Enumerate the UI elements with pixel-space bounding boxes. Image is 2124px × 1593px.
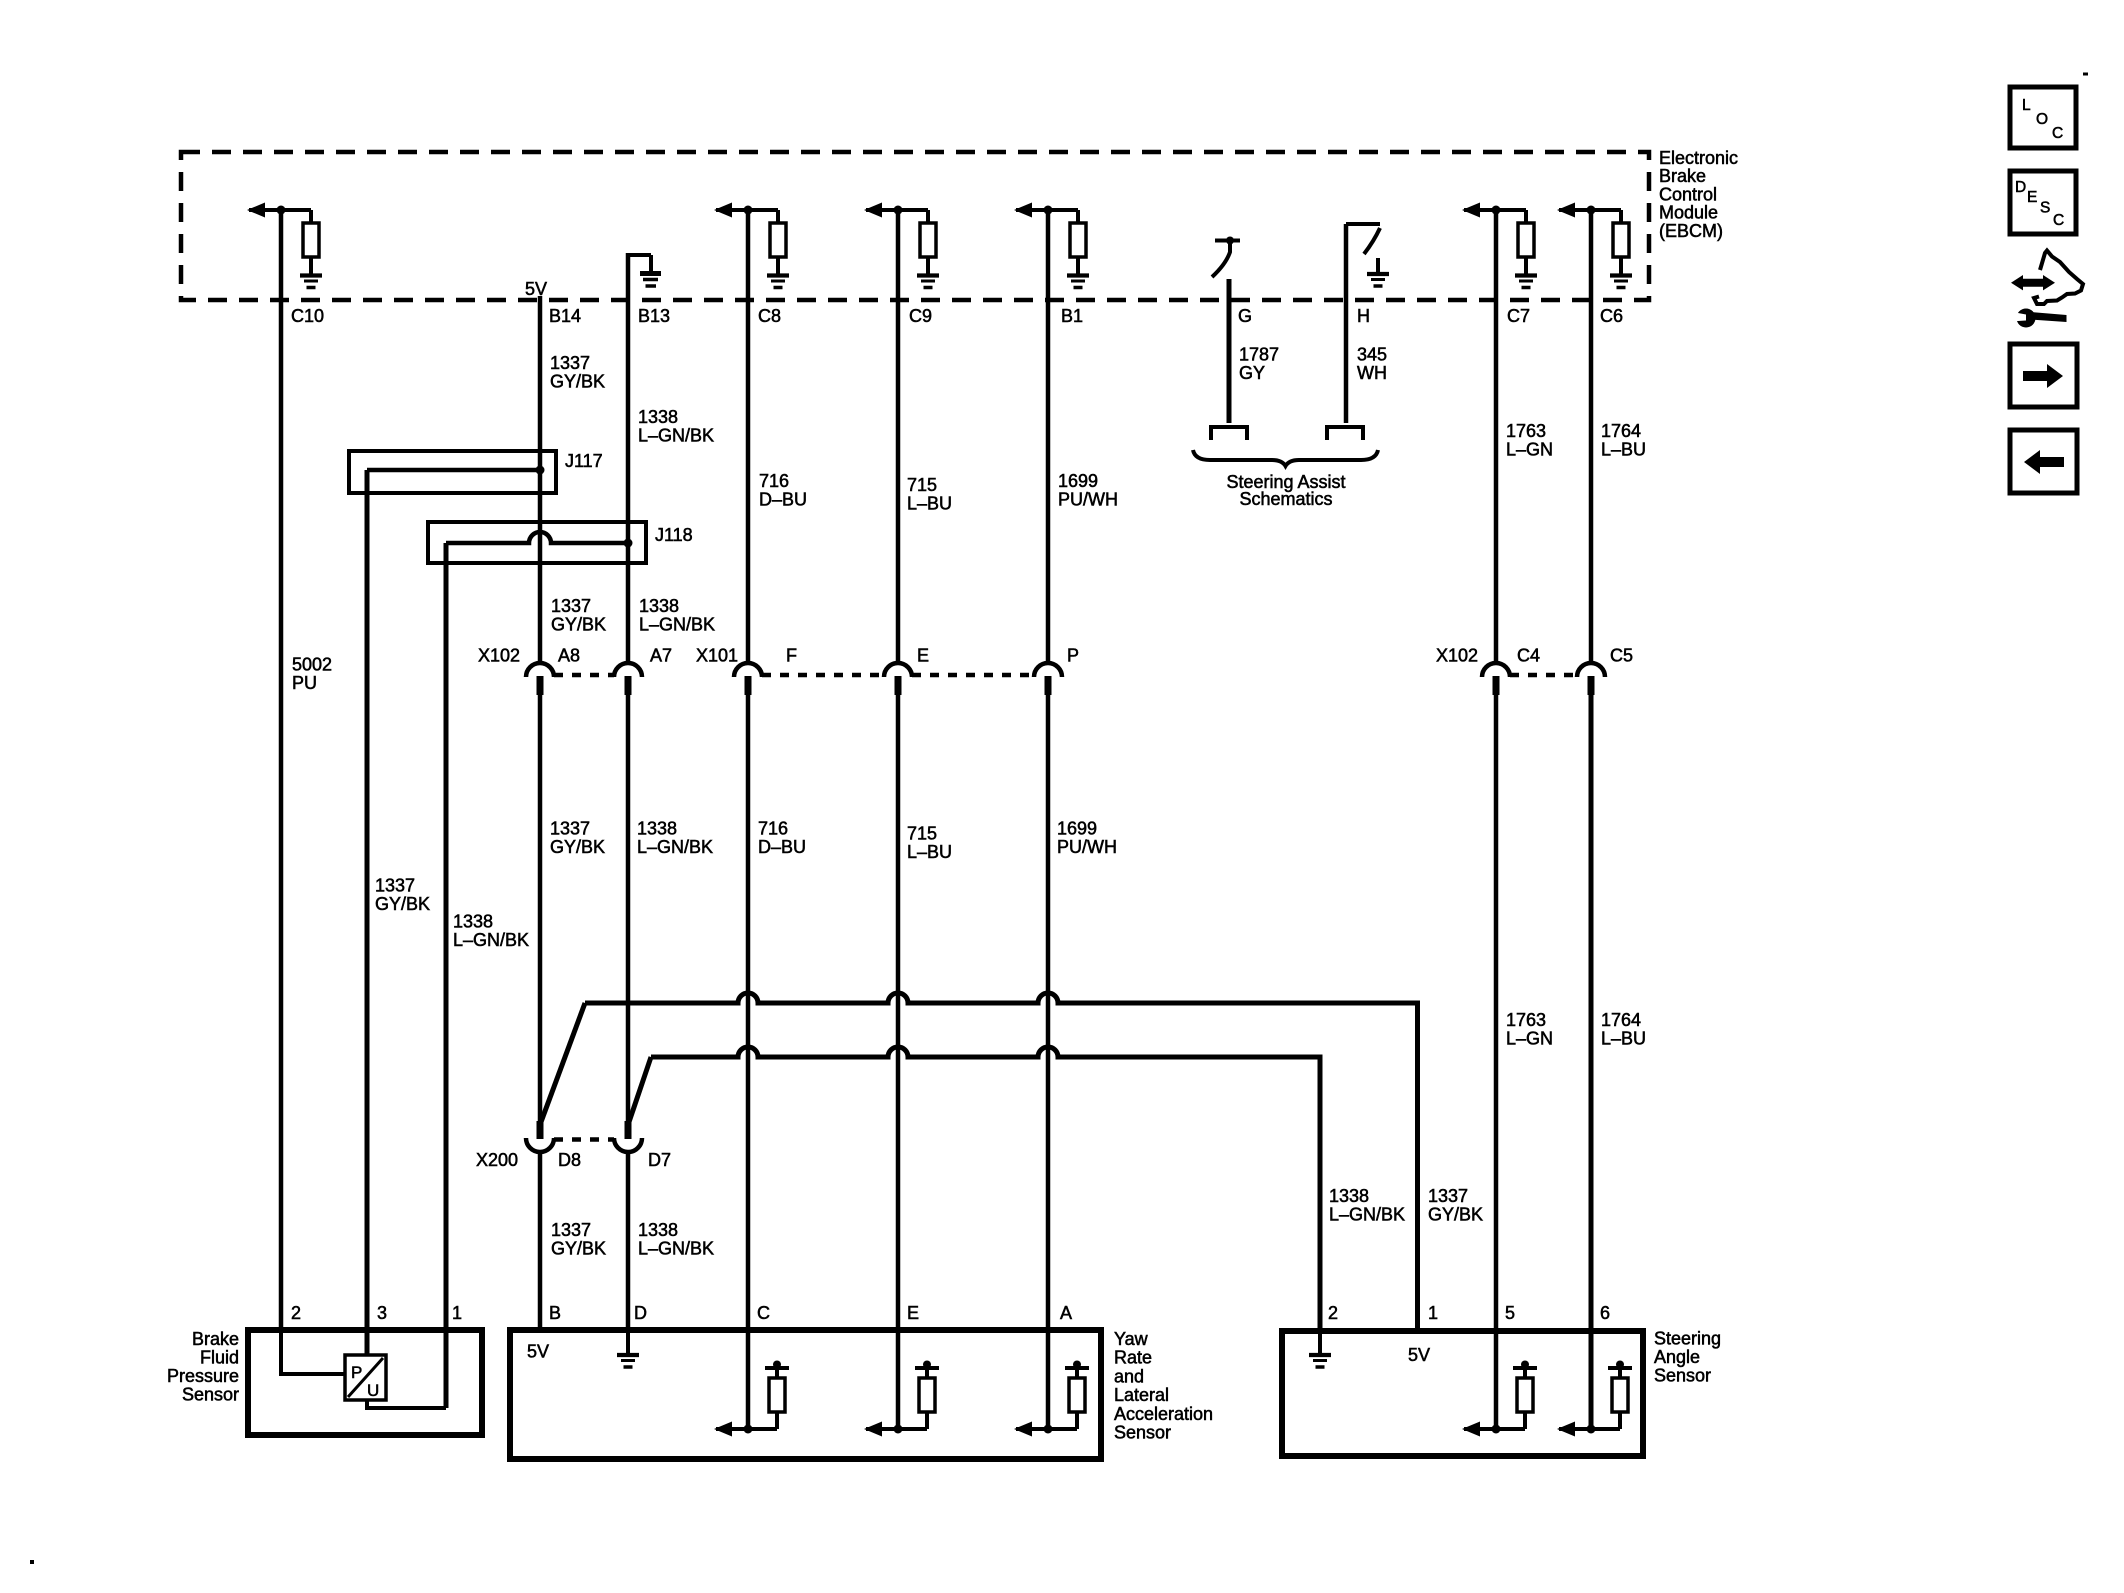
svg-text:L–GN/BK: L–GN/BK xyxy=(1329,1205,1405,1225)
svg-text:E: E xyxy=(917,646,929,666)
svg-text:5002: 5002 xyxy=(292,655,332,675)
G pin switch blade xyxy=(1212,244,1230,277)
connector X200 pin D7 xyxy=(614,1121,642,1152)
connector X102 pin C5 xyxy=(1577,663,1605,695)
svg-text:J117: J117 xyxy=(565,451,603,471)
svg-text:L–BU: L–BU xyxy=(907,842,952,862)
connector X102 pin A7 xyxy=(614,663,642,695)
svg-text:D–BU: D–BU xyxy=(758,837,806,857)
ground symbol at H switch xyxy=(1367,272,1389,276)
steering sensor resistor assembly pin 5 xyxy=(1462,1361,1537,1437)
wire B13 1338 L-GN/BK lower xyxy=(626,1152,631,1330)
wrench of icon xyxy=(2010,309,2066,328)
svg-text:1338: 1338 xyxy=(453,912,493,932)
svg-text:PU/WH: PU/WH xyxy=(1057,837,1117,857)
wire B1 1699 PU/WH upper xyxy=(1046,210,1051,663)
back arrow glyph xyxy=(2024,450,2064,474)
DESC icon box xyxy=(2010,171,2076,234)
dashed link D8-D7 xyxy=(554,1137,614,1142)
splice J118 box xyxy=(428,522,646,563)
wire pin1 link inside sensor xyxy=(367,1400,446,1408)
svg-text:C8: C8 xyxy=(758,306,781,326)
svg-text:5V: 5V xyxy=(527,1342,549,1362)
dashed link E-P xyxy=(912,673,1034,678)
pressure transducer diagonal xyxy=(348,1358,383,1397)
svg-text:3: 3 xyxy=(377,1303,387,1323)
Steering Angle Sensor label xyxy=(1654,1329,1721,1386)
svg-text:B14: B14 xyxy=(549,306,581,326)
svg-text:Sensor: Sensor xyxy=(1114,1423,1171,1443)
connector X101 pin E xyxy=(884,663,912,695)
svg-text:GY/BK: GY/BK xyxy=(375,894,430,914)
page speck bottom left xyxy=(30,1560,34,1564)
svg-text:L–GN/BK: L–GN/BK xyxy=(638,1239,714,1259)
wire C9 715 L-BU lower xyxy=(896,695,901,1429)
svg-text:1787: 1787 xyxy=(1239,345,1279,365)
Steering Angle Sensor box xyxy=(1282,1331,1643,1456)
svg-text:1763: 1763 xyxy=(1506,421,1546,441)
svg-text:1337: 1337 xyxy=(375,876,415,896)
svg-text:WH: WH xyxy=(1357,363,1387,383)
svg-text:1699: 1699 xyxy=(1058,471,1098,491)
svg-text:X102: X102 xyxy=(478,646,520,666)
svg-text:Module: Module xyxy=(1659,203,1718,223)
dashed link A8-A7 xyxy=(554,673,614,678)
svg-text:5V: 5V xyxy=(1408,1345,1430,1365)
svg-text:1699: 1699 xyxy=(1057,819,1097,839)
wire B13 1338 L-GN/BK upper xyxy=(626,253,631,663)
back arrow icon box xyxy=(2010,430,2077,493)
svg-text:Acceleration: Acceleration xyxy=(1114,1404,1213,1424)
svg-text:Rate: Rate xyxy=(1114,1348,1152,1368)
svg-text:GY/BK: GY/BK xyxy=(1428,1205,1483,1225)
svg-text:C: C xyxy=(757,1303,770,1323)
svg-text:S: S xyxy=(2040,200,2050,217)
svg-text:5V: 5V xyxy=(525,279,547,299)
svg-text:1337: 1337 xyxy=(551,596,591,616)
svg-text:1337: 1337 xyxy=(550,353,590,373)
dashed link F-E xyxy=(762,673,884,678)
pressure transducer P/U box xyxy=(345,1355,386,1400)
EBCM internal resistor & ground at pin C7 xyxy=(1462,203,1537,288)
svg-text:P: P xyxy=(1067,646,1079,666)
EBCM internal resistor & ground at pin C6 xyxy=(1557,203,1632,288)
forward arrow icon box xyxy=(2010,344,2077,407)
svg-text:C7: C7 xyxy=(1507,306,1530,326)
svg-text:5: 5 xyxy=(1505,1303,1515,1323)
splice J117 box xyxy=(349,451,556,493)
svg-text:C6: C6 xyxy=(1600,306,1623,326)
splice J118 junction dot xyxy=(624,539,633,548)
svg-text:C: C xyxy=(2052,125,2063,142)
pin labels C10..C6 xyxy=(291,306,1623,326)
EBCM internal resistor & ground at pin C8 xyxy=(714,203,789,288)
svg-text:2: 2 xyxy=(291,1303,301,1323)
svg-text:L–BU: L–BU xyxy=(1601,1029,1646,1049)
svg-text:L–GN: L–GN xyxy=(1506,440,1553,460)
ground stub at yaw pin D xyxy=(626,1330,630,1353)
svg-text:D8: D8 xyxy=(558,1150,581,1170)
svg-text:1338: 1338 xyxy=(1329,1186,1369,1206)
svg-text:G: G xyxy=(1238,306,1252,326)
G pin terminal dot and bar xyxy=(1215,239,1240,243)
EBCM internal ground elbow at pin B13 xyxy=(626,253,651,257)
wire diagonal 5V bus to X200 D8 xyxy=(541,1003,585,1122)
wire C10 5002 PU xyxy=(279,210,284,1330)
svg-text:Sensor: Sensor xyxy=(182,1385,239,1405)
svg-text:E: E xyxy=(907,1303,919,1323)
ground stub at steering pin 2 xyxy=(1318,1331,1322,1353)
svg-text:B13: B13 xyxy=(638,306,670,326)
svg-text:715: 715 xyxy=(907,824,937,844)
svg-text:and: and xyxy=(1114,1366,1144,1386)
connector X102 pin C4 xyxy=(1482,663,1510,695)
EBCM label text xyxy=(1659,148,1738,241)
svg-text:1338: 1338 xyxy=(638,1220,678,1240)
Yaw sensor label xyxy=(1114,1329,1213,1443)
wire C7 1763 L-GN upper xyxy=(1494,210,1499,663)
svg-text:O: O xyxy=(2036,111,2048,128)
svg-text:F: F xyxy=(786,646,797,666)
svg-text:L–BU: L–BU xyxy=(907,494,952,514)
svg-text:L–GN/BK: L–GN/BK xyxy=(638,426,714,446)
EBCM internal resistor & ground at pin B1 xyxy=(1014,203,1089,288)
wire C8 716 D-BU lower xyxy=(746,695,751,1429)
svg-text:Yaw: Yaw xyxy=(1114,1329,1149,1349)
svg-text:L–GN: L–GN xyxy=(1506,1029,1553,1049)
svg-text:A8: A8 xyxy=(558,646,580,666)
svg-text:X101: X101 xyxy=(696,646,738,666)
svg-text:J118: J118 xyxy=(655,525,693,545)
svg-text:C4: C4 xyxy=(1517,646,1540,666)
svg-text:U: U xyxy=(367,1381,379,1400)
svg-text:(EBCM): (EBCM) xyxy=(1659,221,1723,241)
svg-text:Electronic: Electronic xyxy=(1659,148,1738,168)
svg-text:C9: C9 xyxy=(909,306,932,326)
svg-text:B1: B1 xyxy=(1061,306,1083,326)
yaw sensor resistor assembly pin C xyxy=(714,1361,789,1437)
connector X101 pin P xyxy=(1034,663,1062,695)
wire B1 1699 PU/WH lower xyxy=(1046,695,1051,1429)
yaw sensor resistor assembly pin A xyxy=(1014,1361,1089,1437)
svg-text:D–BU: D–BU xyxy=(759,490,807,510)
wire C7 1763 L-GN lower xyxy=(1494,695,1499,1429)
connector X102 pin A8 xyxy=(526,663,554,695)
yaw sensor resistor assembly pin E xyxy=(864,1361,939,1437)
ground symbol at steering pin 2 xyxy=(1309,1353,1331,1357)
page speck top right xyxy=(2083,73,2088,76)
svg-text:716: 716 xyxy=(759,471,789,491)
forward arrow glyph xyxy=(2023,364,2063,388)
wire 1338 L-GN/BK ground bus with hops xyxy=(651,1047,1320,1331)
svg-text:GY/BK: GY/BK xyxy=(550,372,605,392)
wire 1337 GY/BK 5V bus with hops xyxy=(585,993,1418,1331)
svg-text:L–BU: L–BU xyxy=(1601,440,1646,460)
svg-text:PU: PU xyxy=(292,673,317,693)
svg-text:C: C xyxy=(2053,212,2064,229)
svg-text:L–GN/BK: L–GN/BK xyxy=(637,837,713,857)
svg-text:Brake: Brake xyxy=(1659,166,1706,186)
svg-text:1337: 1337 xyxy=(550,819,590,839)
svg-text:Brake: Brake xyxy=(192,1329,239,1349)
ground symbol at pin B13 xyxy=(640,271,661,276)
svg-text:715: 715 xyxy=(907,475,937,495)
svg-text:A7: A7 xyxy=(650,646,672,666)
H wire terminal shoe xyxy=(1327,427,1363,440)
wire C9 715 L-BU upper xyxy=(896,210,901,663)
svg-text:1338: 1338 xyxy=(637,819,677,839)
svg-text:1764: 1764 xyxy=(1601,421,1641,441)
svg-text:Pressure: Pressure xyxy=(167,1366,239,1386)
svg-text:D: D xyxy=(634,1303,647,1323)
svg-text:1338: 1338 xyxy=(639,596,679,616)
svg-text:C10: C10 xyxy=(291,306,324,326)
svg-text:6: 6 xyxy=(1600,1303,1610,1323)
wire B14 1337 GY/BK middle xyxy=(538,695,543,1122)
H pin ground stub xyxy=(1376,258,1380,272)
double arrow of hand icon xyxy=(2011,275,2055,290)
svg-text:1337: 1337 xyxy=(1428,1186,1468,1206)
EBCM module dashed box xyxy=(181,152,1649,300)
connector X101 pin F xyxy=(734,663,762,695)
svg-text:X200: X200 xyxy=(476,1150,518,1170)
wire B14 1337 GY/BK lower xyxy=(538,1152,543,1330)
EBCM internal pull-up resistor & ground at pin C10 xyxy=(247,203,322,288)
LOC icon box xyxy=(2010,87,2076,148)
svg-text:P: P xyxy=(351,1363,362,1382)
wire diagonal ground bus to X200 D7 xyxy=(629,1057,651,1122)
svg-text:E: E xyxy=(2027,189,2037,206)
H pin switch blade xyxy=(1364,228,1380,254)
connector row labels xyxy=(478,646,1633,666)
svg-text:1337: 1337 xyxy=(551,1220,591,1240)
svg-text:GY/BK: GY/BK xyxy=(550,837,605,857)
svg-text:1764: 1764 xyxy=(1601,1010,1641,1030)
splice J117 wire xyxy=(367,468,540,473)
svg-text:A: A xyxy=(1060,1303,1072,1323)
dashed link C4-C5 xyxy=(1510,673,1577,678)
svg-text:L: L xyxy=(2022,97,2031,114)
svg-text:GY/BK: GY/BK xyxy=(551,615,606,635)
svg-text:C5: C5 xyxy=(1610,646,1633,666)
svg-text:PU/WH: PU/WH xyxy=(1058,490,1118,510)
Yaw Rate and Lateral Acceleration Sensor box xyxy=(510,1330,1101,1459)
svg-text:345: 345 xyxy=(1357,345,1387,365)
Brake Fluid Pressure Sensor label xyxy=(167,1329,239,1405)
wire 1337 GY/BK branch from J117 xyxy=(365,470,370,1356)
svg-text:GY: GY xyxy=(1239,363,1265,383)
connector X200 pin D8 xyxy=(526,1121,554,1152)
svg-text:D: D xyxy=(2015,179,2026,196)
svg-text:Control: Control xyxy=(1659,184,1717,204)
svg-text:L–GN/BK: L–GN/BK xyxy=(639,615,715,635)
wire C6 1764 L-BU lower xyxy=(1589,695,1594,1429)
svg-text:1: 1 xyxy=(1428,1303,1438,1323)
hand outline of icon xyxy=(2034,251,2083,305)
wire 1338 L-GN/BK branch from J118 xyxy=(444,543,449,1408)
svg-text:Schematics: Schematics xyxy=(1239,489,1332,509)
ground symbol at yaw pin D xyxy=(617,1353,639,1357)
svg-text:Lateral: Lateral xyxy=(1114,1385,1169,1405)
wire pin2 inside sensor xyxy=(281,1330,347,1374)
svg-text:Angle: Angle xyxy=(1654,1347,1700,1367)
splice J118 wire with hop over B14 xyxy=(446,532,628,543)
svg-text:H: H xyxy=(1357,306,1370,326)
svg-text:GY/BK: GY/BK xyxy=(551,1239,606,1259)
svg-text:1: 1 xyxy=(452,1303,462,1323)
EBCM internal resistor & ground at pin C9 xyxy=(864,203,939,288)
svg-text:X102: X102 xyxy=(1436,646,1478,666)
G wire terminal shoe xyxy=(1211,427,1247,440)
svg-text:B: B xyxy=(549,1303,561,1323)
svg-text:Steering: Steering xyxy=(1654,1329,1721,1349)
wire C8 716 D-BU upper xyxy=(746,210,751,663)
wire C6 1764 L-BU upper xyxy=(1589,210,1594,663)
svg-text:D7: D7 xyxy=(648,1150,671,1170)
wire H 345 WH xyxy=(1344,224,1349,423)
bottom pin labels xyxy=(291,1303,1610,1323)
H pin fixed contact xyxy=(1346,222,1380,226)
wire B13 1338 L-GN/BK middle xyxy=(626,695,631,1122)
steering sensor resistor assembly pin 6 xyxy=(1557,1361,1632,1437)
svg-text:2: 2 xyxy=(1328,1303,1338,1323)
svg-text:716: 716 xyxy=(758,819,788,839)
wire G 1787 GY xyxy=(1227,279,1232,423)
svg-text:L–GN/BK: L–GN/BK xyxy=(453,930,529,950)
svg-text:Sensor: Sensor xyxy=(1654,1366,1711,1386)
brace for steering assist schematics xyxy=(1193,450,1378,466)
splice J117 junction dot xyxy=(536,466,545,475)
svg-text:1763: 1763 xyxy=(1506,1010,1546,1030)
Brake Fluid Pressure Sensor box xyxy=(248,1330,482,1435)
wire B14 1337 GY/BK upper xyxy=(538,296,543,663)
svg-text:1338: 1338 xyxy=(638,407,678,427)
svg-text:Fluid: Fluid xyxy=(200,1348,239,1368)
